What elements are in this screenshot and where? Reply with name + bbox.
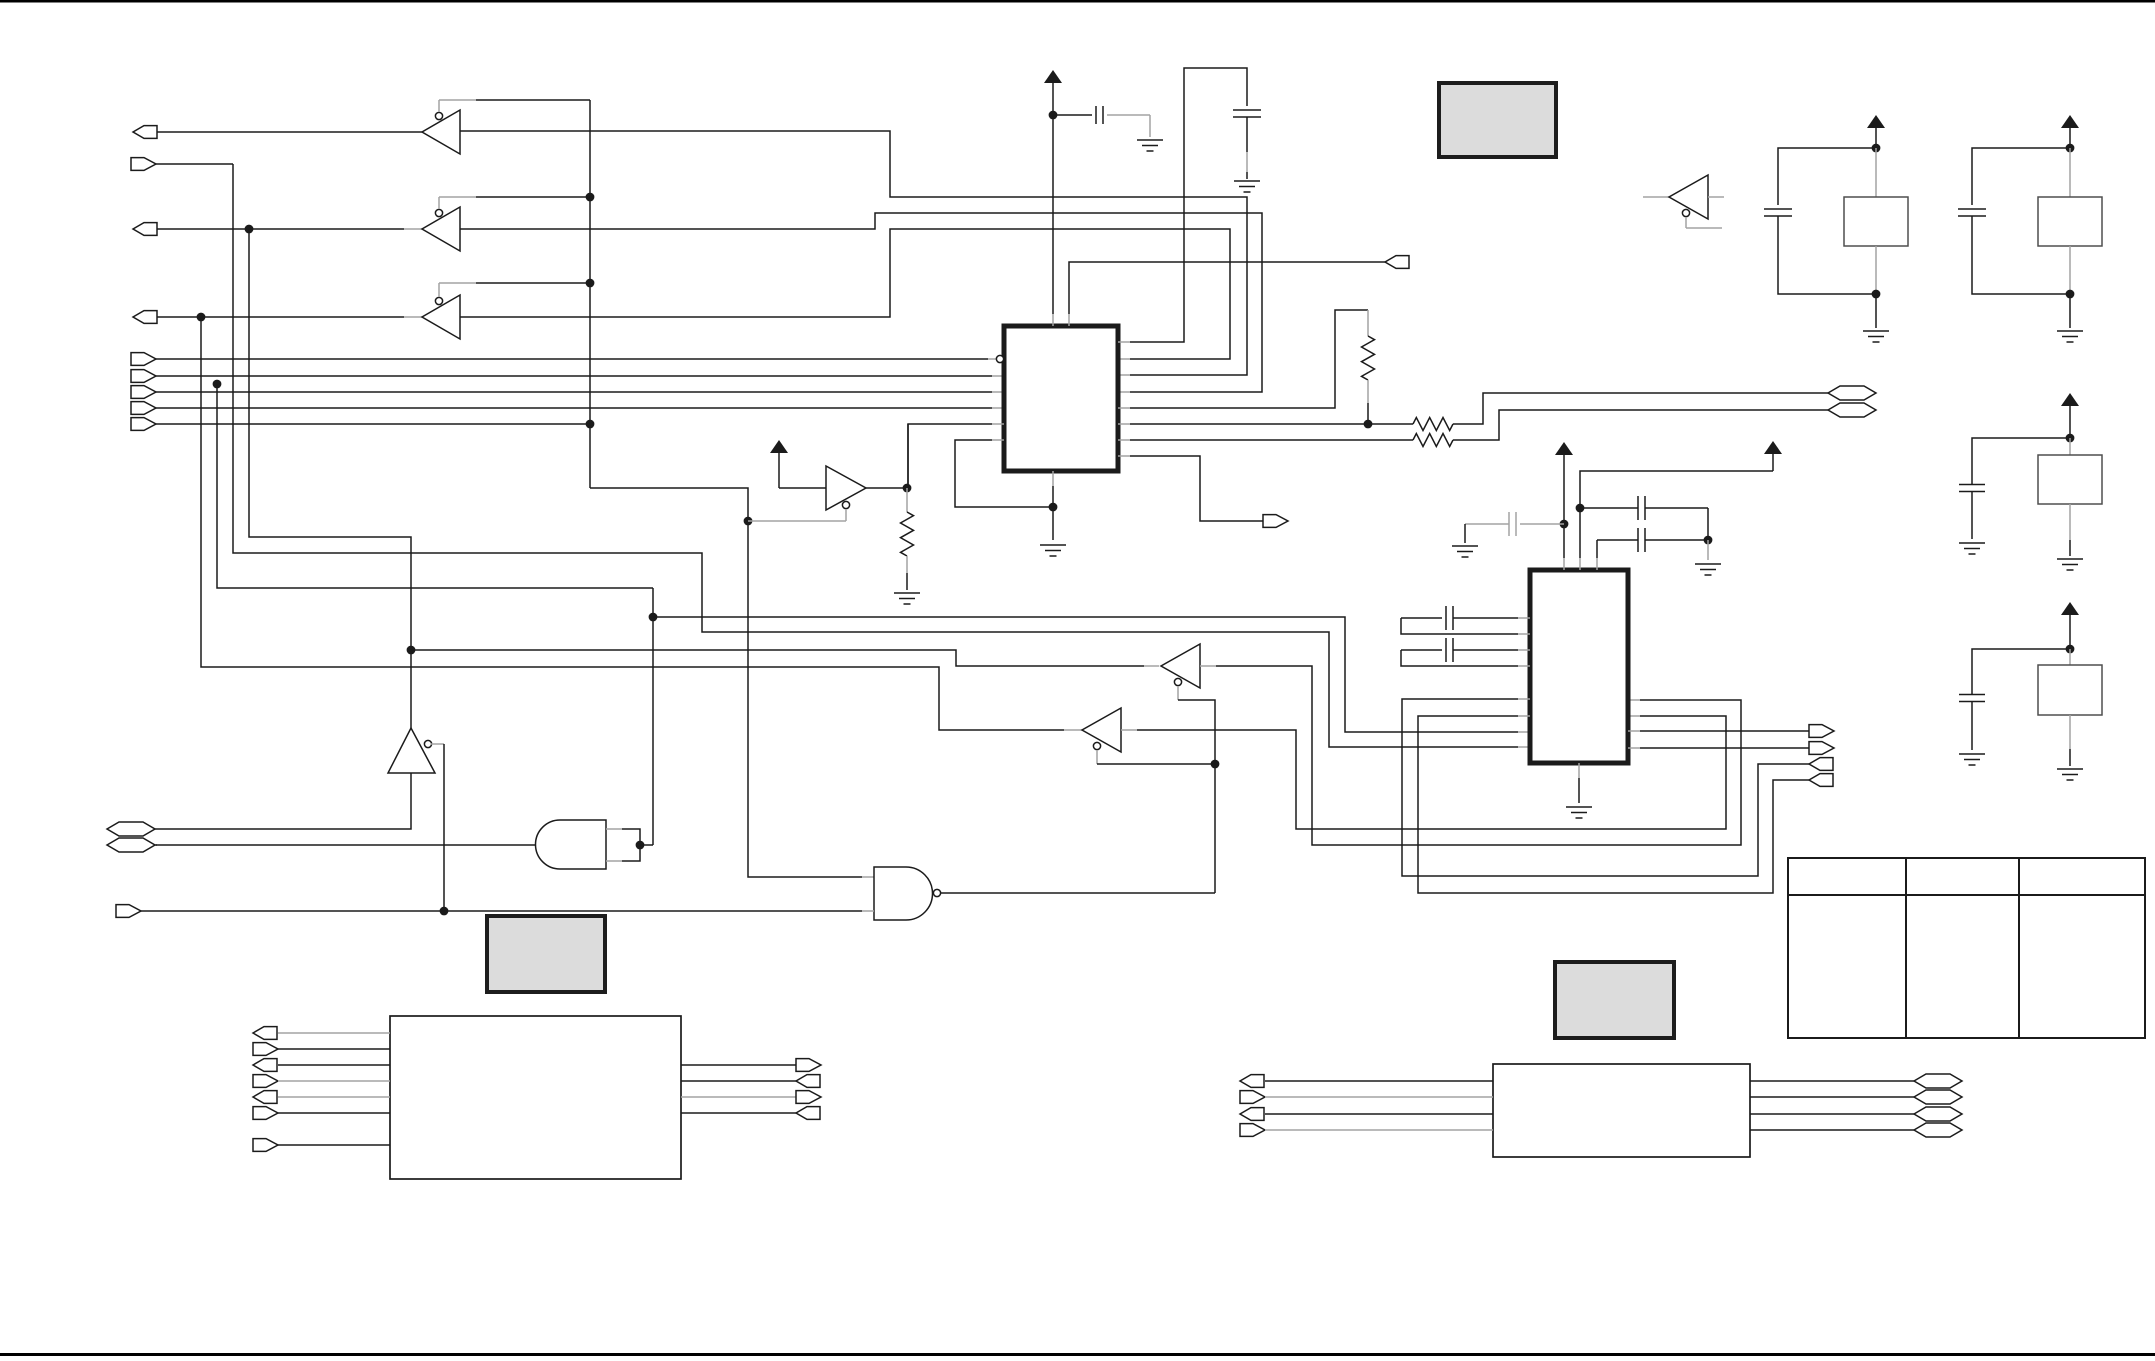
- chevron connector M2 right pin 3: [1750, 1107, 1962, 1121]
- connector M1 right pin 3: [681, 1091, 821, 1104]
- and gate U8: [535, 820, 606, 869]
- capacitor C6: [1401, 606, 1530, 634]
- crystal Y4: [2038, 649, 2102, 766]
- wire U12 right pin 748: [1628, 747, 1809, 749]
- ic U12: [1530, 570, 1628, 763]
- vcc symbol V3: [1555, 442, 1573, 570]
- wire U1 input net: [460, 131, 1247, 375]
- connector M1 right pin 4: [681, 1107, 820, 1120]
- wire net A (x=201): [197, 313, 1082, 730]
- connector J8: [131, 402, 1004, 415]
- wire U9 right pin 6 to chevron: [1118, 423, 1413, 425]
- capacitor C11: [1959, 649, 2070, 750]
- wire net D (x=249): [245, 225, 411, 650]
- wire U10 output: [866, 484, 911, 493]
- wire U9 right pin 5 resistor net: [1118, 310, 1368, 408]
- ic U9: [1004, 326, 1118, 471]
- ground C11: [1959, 754, 1985, 765]
- capacitor C9: [1958, 148, 2070, 294]
- junction NAND input 2: [440, 907, 449, 916]
- junction V1: [1049, 111, 1058, 326]
- connector J13: [1809, 774, 1833, 787]
- wire U12 right pin 731: [1628, 730, 1809, 732]
- junction K2 top: [2066, 144, 2075, 153]
- top border bar: [0, 0, 2155, 3]
- junction buffer enable: [744, 517, 753, 526]
- crystal Y3: [2038, 438, 2102, 556]
- resistor R2: [1362, 336, 1375, 424]
- connector J5: [131, 353, 996, 366]
- wire net B (x=217): [213, 380, 653, 588]
- junction K2 bottom: [2066, 290, 2075, 328]
- connector J10: [1385, 256, 1409, 269]
- chevron connector P3: [1828, 386, 1876, 400]
- connector J3: [133, 223, 422, 236]
- ic U12 bottom ground: [1566, 763, 1592, 818]
- capacitor C7: [1401, 638, 1530, 666]
- capacitor C1: [1053, 106, 1150, 137]
- capacitor C4: [1580, 496, 1708, 540]
- note box N2: [487, 916, 605, 992]
- connector J7: [131, 386, 1004, 399]
- table revision block: [1788, 858, 2145, 1038]
- wire net to caps (x=653): [649, 588, 1530, 845]
- chevron connector P1: [107, 822, 155, 836]
- connector M2 left pin 3: [1240, 1108, 1493, 1121]
- buffer U4: [388, 650, 444, 911]
- chevron connector M2 right pin 2: [1750, 1090, 1962, 1104]
- inverter U2: [422, 197, 590, 251]
- capacitor C3: [1465, 512, 1564, 543]
- inverter U1: [422, 100, 590, 154]
- wire U9 right pin 8: [1118, 456, 1263, 521]
- wire U9 bottom pin: [1045, 471, 1053, 540]
- connector M1 left pin 1: [253, 1027, 390, 1040]
- wire U4 input: [155, 773, 411, 829]
- connector J4: [133, 311, 422, 324]
- wire NAND input 1 stub: [747, 876, 749, 878]
- resistor R3: [1413, 393, 1828, 431]
- connector J15: [1809, 742, 1834, 755]
- connector J6: [131, 370, 1004, 383]
- wire U9 top pin 2: [1069, 262, 1385, 326]
- ground R1: [894, 593, 920, 604]
- nand gate U7: [874, 867, 1215, 920]
- bottom border bar: [0, 1353, 2155, 1357]
- wire U9 left pin 6 (x=908): [908, 424, 1004, 488]
- junction K3: [2066, 434, 2075, 443]
- wire U12 left pin 699: [1402, 699, 1809, 876]
- wire U9 right pin 7 to chevron: [1118, 439, 1413, 441]
- connector J9: [131, 418, 589, 431]
- module M2: [1493, 1064, 1750, 1157]
- ground Y4: [2057, 769, 2083, 780]
- ground C2: [1234, 181, 1260, 192]
- wire net C (x=233): [233, 164, 1530, 747]
- chevron connector P2: [107, 838, 157, 852]
- crystal Y1: [1844, 148, 1908, 294]
- bubble pin U9: [996, 355, 1003, 362]
- connector M1 left pin 2: [253, 1043, 390, 1056]
- capacitor C2: [1233, 110, 1261, 179]
- junction U4 output: [407, 646, 416, 655]
- vcc symbol V5: [1867, 115, 1885, 148]
- junction ground net: [1049, 503, 1058, 512]
- junction C5: [1704, 536, 1713, 560]
- resistor R1: [901, 512, 914, 590]
- wire U3 input net: [460, 229, 1230, 359]
- junction K4: [2066, 645, 2075, 654]
- connector J2: [131, 158, 233, 171]
- connector M1 left pin 7: [253, 1139, 390, 1152]
- junction K1 bottom: [1872, 290, 1881, 328]
- capacitor C5: [1597, 528, 1708, 570]
- ground U9: [1040, 545, 1066, 556]
- wire U9 right pin 1 cap loop: [1118, 68, 1247, 342]
- chevron connector M2 right pin 1: [1750, 1074, 1962, 1088]
- ground C3: [1452, 546, 1478, 557]
- wire U12 left pin 716: [1418, 716, 1809, 893]
- connector M1 left pin 4: [253, 1075, 390, 1088]
- buffer U10: [748, 466, 866, 521]
- note box N1: [1439, 83, 1556, 157]
- connector M1 left pin 5: [253, 1091, 390, 1104]
- wire U8 input: [155, 844, 536, 846]
- inverter U3: [422, 283, 590, 339]
- junction enable net: [1211, 760, 1220, 769]
- junction R2: [1364, 420, 1373, 429]
- inverter U6: [1082, 708, 1215, 764]
- vcc symbol V6: [2061, 115, 2079, 148]
- wire NAND input 2: [116, 905, 874, 918]
- capacitor C10: [1959, 438, 2070, 539]
- module M1: [390, 1016, 681, 1179]
- inverter U5: [1161, 644, 1215, 893]
- wire U6 input net: [1121, 716, 1726, 829]
- wire U4 output to U5 input: [411, 650, 1159, 666]
- ground C1: [1137, 140, 1163, 151]
- junction on enable bus 1: [586, 193, 595, 202]
- connector J1: [133, 126, 422, 139]
- inverter U11: [1643, 175, 1724, 228]
- capacitor C8: [1764, 148, 1876, 294]
- vcc symbol V4: [1764, 441, 1782, 471]
- wire pullup (x=907): [907, 424, 908, 512]
- ground Y2: [2057, 331, 2083, 342]
- vcc symbol V2: [770, 440, 788, 488]
- note box N3: [1555, 962, 1674, 1038]
- junction on enable bus 3: [586, 420, 595, 429]
- wire U2 input net: [460, 213, 1262, 392]
- connector J11: [1263, 515, 1288, 528]
- connector M2 left pin 2: [1240, 1091, 1493, 1104]
- wire U8 pins tie: [606, 829, 653, 861]
- vcc symbol V1: [1044, 70, 1062, 115]
- chevron connector M2 right pin 4: [1750, 1123, 1962, 1137]
- connector M1 left pin 3: [253, 1059, 390, 1072]
- connector M2 left pin 1: [1240, 1075, 1493, 1088]
- ground Y3: [2057, 559, 2083, 570]
- wire U12 top pin 2 net: [1580, 471, 1773, 570]
- junction K1 top: [1872, 144, 1881, 153]
- connector M1 right pin 2: [681, 1075, 820, 1088]
- wire U5 input net: [1200, 666, 1741, 845]
- ground C10: [1959, 543, 1985, 554]
- junction V3: [1560, 520, 1569, 529]
- wire U9 left pin 7 ground net: [955, 440, 1045, 507]
- connector J14: [1809, 725, 1834, 738]
- vcc symbol V8: [2061, 602, 2079, 649]
- connector M1 left pin 6: [253, 1107, 390, 1120]
- vcc symbol V7: [2061, 393, 2079, 438]
- junction on enable bus 2: [586, 279, 595, 288]
- crystal Y2: [2038, 148, 2102, 294]
- wire enable bus: [590, 100, 874, 877]
- ground C5: [1695, 564, 1721, 575]
- connector M1 right pin 1: [681, 1059, 821, 1072]
- resistor R4: [1413, 410, 1828, 447]
- chevron connector P4: [1828, 403, 1876, 417]
- connector J12: [1809, 758, 1833, 771]
- junction C4: [1576, 504, 1585, 513]
- connector M2 left pin 4: [1240, 1124, 1493, 1137]
- ground Y1: [1863, 331, 1889, 342]
